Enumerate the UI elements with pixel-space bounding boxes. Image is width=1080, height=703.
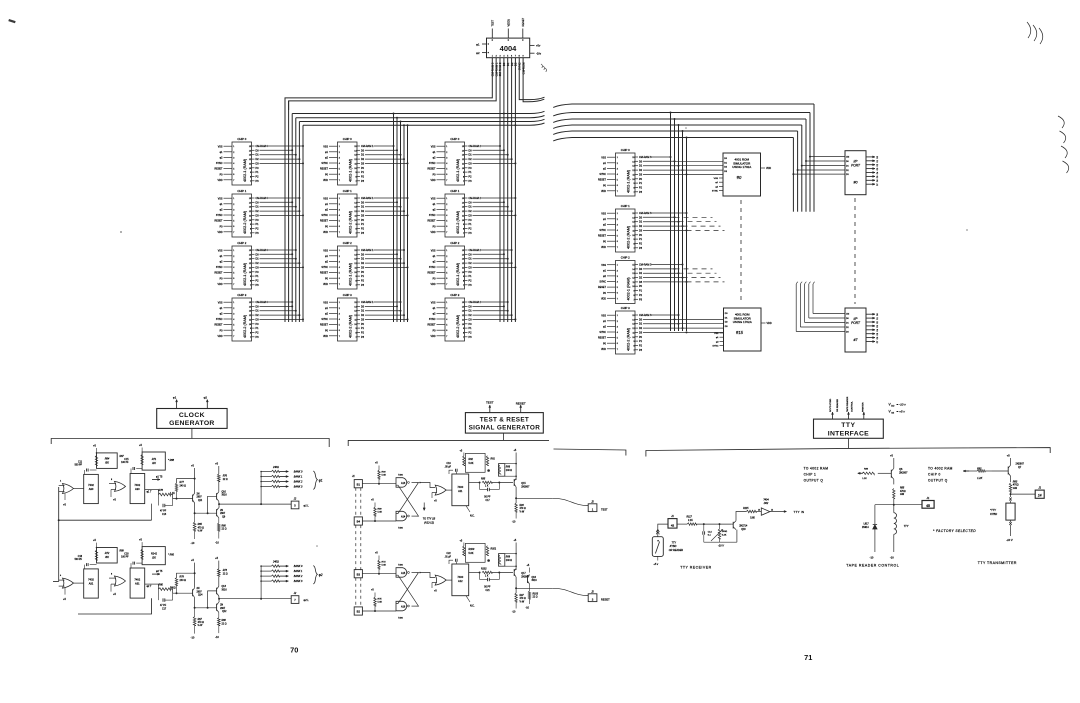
svg-text:7404: 7404 xyxy=(763,499,769,502)
svg-text:*TTY: *TTY xyxy=(990,508,996,512)
svg-text:VSS: VSS xyxy=(431,197,436,200)
svg-text:2: 2 xyxy=(339,152,340,154)
svg-text:BANK 2: BANK 2 xyxy=(294,575,303,578)
svg-text:1.2K: 1.2K xyxy=(977,477,982,480)
svg-text:C21: C21 xyxy=(486,590,491,592)
svg-text:3: 3 xyxy=(339,209,340,211)
RAM chip CHIP 2 (4002-1 (RAM)) xyxy=(215,241,255,289)
svg-text:2907: 2907 xyxy=(197,591,203,593)
svg-text:8: 8 xyxy=(463,228,464,230)
svg-text:RESET: RESET xyxy=(598,179,607,182)
svg-text:OR READER: OR READER xyxy=(836,399,839,412)
svg-text:240 Ω: 240 Ω xyxy=(180,485,187,488)
svg-text:VSS: VSS xyxy=(431,145,436,148)
svg-text:15: 15 xyxy=(632,157,634,159)
svg-text:J1: J1 xyxy=(927,496,930,500)
svg-text:CHIP 1: CHIP 1 xyxy=(450,189,459,193)
wire latch to OR gate reset xyxy=(420,573,435,578)
svg-text:11: 11 xyxy=(633,230,635,232)
svg-text:RESET: RESET xyxy=(215,324,224,327)
svg-text:3: 3 xyxy=(446,261,447,263)
output wire to J2 TEST xyxy=(515,497,517,499)
svg-text:5: 5 xyxy=(233,325,234,327)
svg-text:1: 1 xyxy=(339,146,340,148)
svg-text:O3: O3 xyxy=(877,168,879,171)
svg-text:-10: -10 xyxy=(215,635,219,639)
svg-text:φ1: φ1 xyxy=(319,478,323,482)
svg-text:* R88: * R88 xyxy=(168,459,175,462)
svg-text:A31: A31 xyxy=(89,581,94,585)
svg-text:VSS: VSS xyxy=(323,249,328,252)
svg-text:VSS: VSS xyxy=(218,249,223,252)
svg-text:DD: DD xyxy=(891,406,895,408)
svg-text:-10: -10 xyxy=(215,541,219,545)
RAM chip CHIP 3 (4002-2 (RAM)) xyxy=(215,293,255,341)
svg-text:4002-1 (RAM): 4002-1 (RAM) xyxy=(626,277,630,300)
capacitor C11 phi1 xyxy=(84,470,86,474)
svg-text:CM-RAM 3: CM-RAM 3 xyxy=(639,156,652,159)
svg-text:13: 13 xyxy=(249,207,251,209)
wire CHIP 3 CM/data lines to bus xyxy=(639,314,724,352)
svg-text:7: 7 xyxy=(446,232,447,234)
svg-text:RESET: RESET xyxy=(598,337,607,340)
svg-text:22 Ω: 22 Ω xyxy=(223,573,228,575)
svg-text:1: 1 xyxy=(617,157,618,159)
emitter chain wire phi1 xyxy=(195,503,217,513)
svg-text:.01 μF: .01 μF xyxy=(445,557,452,559)
connector J2 phi1 xyxy=(291,501,299,509)
svg-text:SYNC: SYNC xyxy=(599,173,606,176)
svg-text:VDD: VDD xyxy=(323,179,328,182)
NAND gate A13 xyxy=(396,478,407,488)
svg-text:8: 8 xyxy=(355,332,356,334)
svg-text:6: 6 xyxy=(446,278,447,280)
NOR gate 7402 phi2a xyxy=(63,578,74,588)
wire CHIP 1 CM/data lines to bus xyxy=(469,197,517,235)
RAM chip CHIP 1 (4002-2 (RAM)) xyxy=(320,189,360,237)
svg-text:5: 5 xyxy=(339,221,340,223)
svg-text:14: 14 xyxy=(354,150,356,152)
wire CHIP 0 CM/data lines to bus xyxy=(256,145,305,183)
wire CHIP 3 CM/data lines to bus xyxy=(469,301,517,339)
svg-text:15: 15 xyxy=(462,250,464,252)
svg-text:11: 11 xyxy=(249,319,251,321)
+5 rail first phi1 xyxy=(194,468,196,493)
svg-text:7: 7 xyxy=(355,285,356,287)
svg-text:7400: 7400 xyxy=(398,565,404,567)
svg-text:CM-RAM 3: CM-RAM 3 xyxy=(639,314,652,317)
svg-text:A30: A30 xyxy=(135,487,140,491)
resistor box R84 phi1 xyxy=(97,453,118,469)
vertical wire left rail xyxy=(58,520,60,581)
svg-text:8: 8 xyxy=(250,332,251,334)
svg-text:4: 4 xyxy=(446,215,447,217)
svg-text:C17: C17 xyxy=(162,608,167,610)
svg-text:RESET: RESET xyxy=(215,168,224,171)
svg-text:12: 12 xyxy=(462,211,464,213)
svg-text:CONTROL: CONTROL xyxy=(852,401,854,412)
svg-text:3: 3 xyxy=(233,209,234,211)
svg-text:R89: R89 xyxy=(120,551,125,553)
IC 7402 A30 phi1 xyxy=(84,474,99,503)
svg-text:SYNC: SYNC xyxy=(216,266,223,269)
svg-text:4: 4 xyxy=(617,230,618,232)
svg-text:3016: 3016 xyxy=(532,580,538,582)
svg-text:4002-2 (RAM): 4002-2 (RAM) xyxy=(243,211,247,234)
svg-text:VDD: VDD xyxy=(430,179,435,182)
resistor R95 reset xyxy=(469,572,480,574)
bracket clock generator xyxy=(51,439,329,448)
svg-text:14: 14 xyxy=(632,269,634,271)
svg-text:TAPE READER: TAPE READER xyxy=(846,396,849,412)
svg-text:12: 12 xyxy=(632,170,634,172)
svg-text:-10 V: -10 V xyxy=(718,545,724,548)
svg-text:15: 15 xyxy=(462,302,464,304)
-10V bottom rail xyxy=(704,541,737,543)
svg-text:12: 12 xyxy=(462,159,464,161)
wire CHIP 2 CM/data lines to bus xyxy=(639,264,725,302)
svg-text:5: 5 xyxy=(339,325,340,327)
svg-text:VDD: VDD xyxy=(601,348,606,351)
bracket segment right of test/reset xyxy=(554,449,626,456)
RAM chip CHIP 2 (4002-1 (RAM)) xyxy=(320,241,360,289)
svg-text:2: 2 xyxy=(233,308,234,310)
dashed link J1 B4 to B3 xyxy=(355,525,357,572)
svg-text:RESET: RESET xyxy=(521,17,525,26)
emitter chain wire phi2 xyxy=(195,598,217,608)
svg-text:10: 10 xyxy=(462,168,464,170)
svg-text:7400: 7400 xyxy=(398,618,404,620)
svg-text:2N2907: 2N2907 xyxy=(521,486,530,488)
svg-text:3: 3 xyxy=(339,313,340,315)
svg-text:8: 8 xyxy=(250,176,251,178)
wire latch to OR gate test xyxy=(420,483,435,488)
svg-text:CHIP 2: CHIP 2 xyxy=(450,241,459,245)
RAM chip CHIP 3 (4002-2 (RAM)) xyxy=(428,293,468,341)
svg-text:CM-RAM 0: CM-RAM 0 xyxy=(256,249,269,252)
svg-text:RCV'D KYBD: RCV'D KYBD xyxy=(830,398,832,412)
svg-text:3: 3 xyxy=(339,261,340,263)
svg-text:10: 10 xyxy=(249,272,251,274)
wire CHIP 3 CM/data lines to bus xyxy=(361,301,409,339)
svg-text:8: 8 xyxy=(355,280,356,282)
svg-text:R92: R92 xyxy=(469,458,474,461)
svg-text:CHIP 3: CHIP 3 xyxy=(621,306,630,310)
svg-text:VDD: VDD xyxy=(430,335,435,338)
wire gate2 out to R78 phi2 xyxy=(145,583,159,585)
svg-text:TAPE READER CONTROL: TAPE READER CONTROL xyxy=(846,563,899,567)
svg-text:4: 4 xyxy=(233,163,234,165)
svg-text:1: 1 xyxy=(233,146,234,148)
capacitor 47PF phi1 xyxy=(157,495,159,506)
svg-text:VDD: VDD xyxy=(217,335,222,338)
IC box 7400 A12 xyxy=(452,564,469,596)
svg-text:8: 8 xyxy=(633,295,634,297)
svg-text:O4: O4 xyxy=(877,172,879,175)
wire bus: column 2 verticals xyxy=(393,114,395,323)
svg-text:CM-RAM 0: CM-RAM 0 xyxy=(256,301,269,304)
svg-text:4002-1 (RAM): 4002-1 (RAM) xyxy=(456,263,460,286)
svg-text:R141: R141 xyxy=(151,553,158,556)
svg-text:CM-RAM 3: CM-RAM 3 xyxy=(639,264,652,267)
svg-text:6: 6 xyxy=(446,330,447,332)
svg-text:7: 7 xyxy=(463,181,464,183)
svg-text:2N2714: 2N2714 xyxy=(739,526,748,528)
coil TTY relay xyxy=(894,513,897,535)
svg-text:9: 9 xyxy=(355,276,356,278)
svg-text:RESET: RESET xyxy=(320,272,329,275)
svg-text:14: 14 xyxy=(462,254,464,256)
svg-text:TTY IN: TTY IN xyxy=(794,510,805,514)
star mark xyxy=(487,559,490,562)
svg-text:TEST: TEST xyxy=(601,508,608,512)
svg-text:1 K: 1 K xyxy=(485,485,489,487)
svg-text:φ2 L: φ2 L xyxy=(304,598,310,602)
svg-text:5: 5 xyxy=(446,273,447,275)
svg-text:#0: #0 xyxy=(737,175,742,180)
svg-text:C19: C19 xyxy=(447,463,452,465)
svg-text:9: 9 xyxy=(463,328,464,330)
transistor output test xyxy=(513,479,515,486)
svg-text:7: 7 xyxy=(463,337,464,339)
svg-text:9: 9 xyxy=(250,276,251,278)
svg-text:8: 8 xyxy=(250,280,251,282)
svg-text:8: 8 xyxy=(250,228,251,230)
svg-text:10: 10 xyxy=(249,220,251,222)
svg-text:+5 v: +5 v xyxy=(653,563,659,566)
svg-text:A11: A11 xyxy=(458,489,463,493)
wire CHIP 2 CM/data lines to bus xyxy=(361,249,409,287)
RAM chip CHIP 0 (4002-1 (RAM)) xyxy=(320,137,360,185)
svg-text:6: 6 xyxy=(233,278,234,280)
svg-text:2N: 2N xyxy=(197,494,200,496)
svg-text:7: 7 xyxy=(250,181,251,183)
svg-text:3: 3 xyxy=(617,224,618,226)
svg-text:6: 6 xyxy=(617,241,618,243)
resistor R65 470 phi2 xyxy=(193,617,196,626)
svg-text:R80: R80 xyxy=(159,584,164,587)
RAM chip CHIP 1 (4002-2 (RAM)) xyxy=(598,204,638,252)
wire gate2 out to R78 phi1 xyxy=(145,489,159,491)
svg-text:* R90: * R90 xyxy=(168,554,175,557)
svg-text:Q10: Q10 xyxy=(222,492,227,494)
svg-text:-10: -10 xyxy=(870,556,874,560)
svg-text:1: 1 xyxy=(617,315,618,317)
svg-text:14: 14 xyxy=(632,161,634,163)
svg-text:240 Ω: 240 Ω xyxy=(506,470,512,472)
wire CHIP 1 CM/data lines to bus xyxy=(639,212,725,250)
svg-text:OUTPUT Q: OUTPUT Q xyxy=(804,479,824,483)
RAM chip CHIP 1 (4002-2 (RAM)) xyxy=(215,189,255,237)
svg-text:5.6K: 5.6K xyxy=(378,512,383,514)
svg-text:13: 13 xyxy=(249,311,251,313)
svg-text:11: 11 xyxy=(462,215,464,217)
svg-text:11: 11 xyxy=(462,163,464,165)
svg-text:1: 1 xyxy=(617,265,618,267)
svg-text:2: 2 xyxy=(617,270,618,272)
svg-text:2: 2 xyxy=(339,204,340,206)
net label phi T5 phi1 xyxy=(152,479,160,481)
cross-coupling wires reset xyxy=(412,572,417,574)
svg-text:11: 11 xyxy=(355,215,357,217)
svg-text:9: 9 xyxy=(633,183,634,185)
page curl marks far right xyxy=(1058,116,1064,128)
svg-text:VDD: VDD xyxy=(767,322,772,325)
svg-text:6: 6 xyxy=(446,174,447,176)
svg-text:14: 14 xyxy=(249,254,251,256)
svg-text:TO TTY 1B: TO TTY 1B xyxy=(423,518,436,521)
svg-text:CHIP 3: CHIP 3 xyxy=(237,293,246,297)
svg-text:C16: C16 xyxy=(78,556,83,558)
svg-text:22 Ω: 22 Ω xyxy=(533,597,538,599)
svg-text:VSS: VSS xyxy=(431,301,436,304)
svg-text:11: 11 xyxy=(633,174,635,176)
svg-text:3: 3 xyxy=(617,326,618,328)
svg-text:500 PF: 500 PF xyxy=(75,465,83,467)
svg-text:VDD: VDD xyxy=(430,231,435,234)
svg-text:8: 8 xyxy=(355,228,356,230)
svg-text:5: 5 xyxy=(617,287,618,289)
wire bus: column 1 verticals xyxy=(284,98,286,322)
svg-text:10: 10 xyxy=(632,337,634,339)
svg-text:14: 14 xyxy=(462,306,464,308)
svg-text:R95: R95 xyxy=(481,479,486,481)
svg-text:SYNC: SYNC xyxy=(216,162,223,165)
svg-text:2: 2 xyxy=(339,308,340,310)
svg-text:CM-RAM 3: CM-RAM 3 xyxy=(639,212,652,215)
resistor R78 1.1K phi1 xyxy=(158,493,170,496)
svg-text:12: 12 xyxy=(354,159,356,161)
svg-text:/2K: /2K xyxy=(151,557,156,560)
svg-text:A12: A12 xyxy=(458,579,463,583)
svg-text:R76: R76 xyxy=(223,476,228,478)
svg-text:CHIP 0: CHIP 0 xyxy=(928,472,941,476)
svg-text:CHIP 0: CHIP 0 xyxy=(621,148,630,152)
RAM chip CHIP 1 (4002-2 (RAM)) xyxy=(428,189,468,237)
transistor Q10 3016 phi2 xyxy=(216,588,218,595)
svg-text:TTY: TTY xyxy=(672,542,677,545)
svg-text:3016: 3016 xyxy=(222,495,228,497)
+5 supply phi2 xyxy=(96,543,98,548)
svg-text:¼ W: ¼ W xyxy=(198,530,204,533)
svg-text:R87: R87 xyxy=(120,456,125,458)
svg-text:7: 7 xyxy=(617,349,618,351)
svg-text:6: 6 xyxy=(446,226,447,228)
N.C. stub reset xyxy=(466,596,470,602)
svg-text:3: 3 xyxy=(233,157,234,159)
junction to J1 45 xyxy=(893,499,895,513)
IC 7402 A30 second phi1 xyxy=(130,474,145,504)
svg-text:7: 7 xyxy=(463,285,464,287)
transistor Q10 3016 phi1 xyxy=(216,493,218,500)
svg-text:13: 13 xyxy=(462,207,464,209)
svg-text:14: 14 xyxy=(249,150,251,152)
svg-text:5.6K: 5.6K xyxy=(469,552,474,555)
svg-text:14: 14 xyxy=(354,254,356,256)
svg-text:-10 V: -10 V xyxy=(1006,538,1013,542)
svg-text:10: 10 xyxy=(462,272,464,274)
svg-text:15: 15 xyxy=(354,146,356,148)
transistor Q6 2N2907 xyxy=(890,470,892,478)
svg-text:2: 2 xyxy=(446,204,447,206)
svg-text:22 Ω: 22 Ω xyxy=(222,623,227,625)
resistor R93 470 reset xyxy=(515,577,517,593)
svg-text:4: 4 xyxy=(233,267,234,269)
svg-text:R91: R91 xyxy=(491,458,496,461)
svg-text:11: 11 xyxy=(462,267,464,269)
svg-text:14: 14 xyxy=(462,202,464,204)
svg-text:CHIP 1: CHIP 1 xyxy=(621,204,630,208)
svg-text:10: 10 xyxy=(354,168,356,170)
svg-text:1: 1 xyxy=(339,198,340,200)
OR gate reset xyxy=(435,575,446,585)
svg-text:INTERFACE: INTERFACE xyxy=(828,431,869,438)
svg-text:2907: 2907 xyxy=(220,608,226,610)
resistor R103 22 (reset channel extra) xyxy=(529,584,531,591)
svg-text:3: 3 xyxy=(233,313,234,315)
svg-text:SYNC: SYNC xyxy=(429,162,436,165)
svg-text:VSS: VSS xyxy=(323,301,328,304)
svg-text:2: 2 xyxy=(617,163,618,165)
svg-text:B2: B2 xyxy=(357,610,361,614)
capacitor C17 test xyxy=(479,483,481,490)
capacitor C15 phi1 xyxy=(130,469,132,474)
svg-text:TEST: TEST xyxy=(486,401,494,405)
svg-text:200Ω: 200Ω xyxy=(722,531,728,533)
svg-text:VSS: VSS xyxy=(601,264,606,267)
svg-text:SYNC: SYNC xyxy=(321,214,328,217)
svg-text:7: 7 xyxy=(233,180,234,182)
svg-text:O6: O6 xyxy=(877,180,879,183)
star mark xyxy=(487,469,490,472)
NOR gate 7402 phi1a xyxy=(63,484,74,494)
svg-text:C17: C17 xyxy=(486,500,491,502)
wire CHIP 0 CM/data lines to bus xyxy=(639,156,723,194)
svg-text:Q14: Q14 xyxy=(198,595,203,597)
wire CHIP 2 CM/data lines to bus xyxy=(469,249,517,287)
wire emitter down xyxy=(736,530,738,543)
svg-text:10: 10 xyxy=(354,324,356,326)
svg-text:OR READER: OR READER xyxy=(669,549,683,552)
svg-text:7: 7 xyxy=(446,284,447,286)
svg-text:VSS: VSS xyxy=(601,212,606,215)
svg-text:4: 4 xyxy=(617,282,618,284)
svg-text:1: 1 xyxy=(339,250,340,252)
svg-text:4: 4 xyxy=(446,163,447,165)
svg-text:CHIP 0: CHIP 0 xyxy=(450,137,459,141)
svg-text:9: 9 xyxy=(355,328,356,330)
svg-text:240 Ω: 240 Ω xyxy=(180,579,187,582)
resistor R95 test xyxy=(469,482,480,484)
svg-text:15: 15 xyxy=(354,250,356,252)
svg-text:φ1: φ1 xyxy=(476,42,480,46)
svg-text:2: 2 xyxy=(233,204,234,206)
svg-text:R103: R103 xyxy=(533,594,539,596)
svg-text:4: 4 xyxy=(339,319,340,321)
capacitor C19 test xyxy=(456,472,458,475)
svg-text:8: 8 xyxy=(463,332,464,334)
svg-text:22 Ω: 22 Ω xyxy=(223,479,228,481)
svg-text:#15: #15 xyxy=(736,330,744,335)
svg-text:R81: R81 xyxy=(977,467,982,470)
svg-text:A16: A16 xyxy=(401,605,406,608)
svg-text:BANK 3: BANK 3 xyxy=(294,580,303,583)
svg-text:φ2: φ2 xyxy=(319,573,323,577)
svg-text:1N914: 1N914 xyxy=(862,527,869,529)
pull-up resistor R90 test xyxy=(362,483,396,485)
svg-text:6: 6 xyxy=(233,174,234,176)
svg-text:TO 4002 RAM: TO 4002 RAM xyxy=(804,466,829,470)
